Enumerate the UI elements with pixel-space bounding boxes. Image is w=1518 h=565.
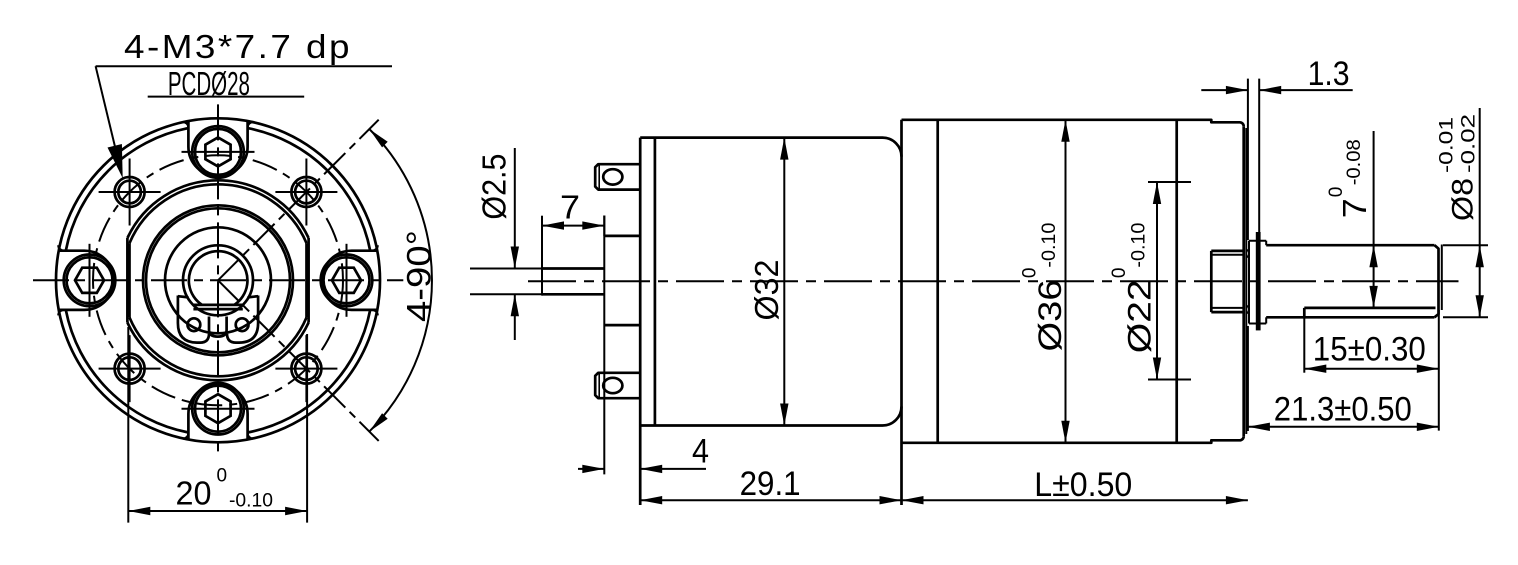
hex screw right cross line: [346, 244, 348, 317]
M3 hole lower-right outer circle: [291, 354, 321, 384]
M3 hole upper-right horizontal crosshair: [275, 191, 337, 193]
hex screw top head inner circle: [195, 129, 241, 175]
motor can bottom edge: [640, 407, 901, 426]
extension line shaft end lower: [1438, 310, 1440, 431]
M3 hole upper-left outer circle: [115, 177, 145, 207]
svg-text:Ø22: Ø22: [1121, 279, 1157, 353]
stub left face / extension line 7: [541, 216, 543, 296]
boss chamfer left flat chord: [128, 243, 131, 317]
bearing boss top edge: [1211, 250, 1243, 253]
arrow dia8 top: [1476, 245, 1484, 267]
gearbox rear plate right edge: [936, 120, 939, 443]
bearing boss bottom edge: [1211, 311, 1243, 314]
hex screw top pocket slot: [188, 121, 247, 176]
svg-text:1.3: 1.3: [1308, 55, 1350, 93]
boss chamfer R96 bottom arc: [130, 318, 307, 377]
dimension line 7: [542, 225, 604, 227]
arrow dia22 top: [1153, 182, 1161, 204]
front view horizontal centerline: [33, 279, 403, 281]
terminal lower outline: [595, 373, 640, 398]
M3 hole lower-left inner circle: [118, 357, 141, 380]
svg-text:0: 0: [1020, 268, 1041, 279]
M3 hole lower-right inner circle: [295, 357, 318, 380]
extension line dia22 bottom: [1148, 379, 1191, 381]
extension line 21.3 left: [1247, 326, 1249, 431]
arrow 20 right: [285, 507, 307, 515]
extension line 1.3 right: [1258, 79, 1260, 232]
retaining ring right lug outline: [227, 296, 258, 343]
retaining ring right lug top edge: [248, 296, 259, 297]
svg-text:Ø2.5: Ø2.5: [476, 154, 513, 220]
pocket rim fillet right-bottom: [372, 310, 378, 316]
svg-text:21.3±0.50: 21.3±0.50: [1274, 391, 1412, 429]
dimension line dia32: [783, 138, 785, 426]
arrow 21.3 right: [1417, 423, 1439, 431]
bearing boss circle R53: [165, 227, 271, 333]
hex screw left hexagon socket: [75, 268, 104, 293]
hex screw right head inner circle: [324, 257, 370, 303]
output shaft circle: [183, 245, 253, 315]
terminal upper hole: [603, 169, 622, 184]
washer fillet arc upper: [1247, 250, 1249, 258]
rear shaft stub top edge: [542, 267, 604, 270]
dimension line dia36: [1065, 120, 1067, 443]
arrow L left: [902, 496, 924, 504]
arrow dia32 top: [780, 138, 788, 160]
arrow flat7 bottom: [1369, 286, 1377, 308]
dimension line dia22: [1156, 182, 1158, 380]
svg-text:Ø36: Ø36: [1032, 280, 1068, 352]
hex screw left cross line: [89, 244, 91, 317]
output shaft end face with chamfers: [1435, 245, 1439, 317]
front view outer circle (gearbox OD 36): [56, 118, 380, 442]
svg-text:Ø8: Ø8: [1447, 178, 1480, 221]
arrow 1.3 left: [1226, 86, 1248, 94]
svg-text:7: 7: [560, 188, 580, 225]
gearbox top edge: [902, 120, 1244, 127]
dimension line 4 left tail: [578, 468, 604, 470]
front view vertical centerline: [217, 104, 219, 454]
M3 hole lower-right vertical crosshair: [305, 335, 307, 402]
arrow dia32 bottom: [780, 404, 788, 426]
arrow dia22 bottom: [1153, 358, 1161, 380]
angle dimension arc 90 deg: [369, 129, 432, 432]
pocket rim fillet right-top: [372, 245, 378, 251]
bearing boss top inner line: [1211, 254, 1243, 256]
M3 hole lower-right horizontal crosshair: [275, 368, 337, 370]
output shaft bottom edge: [1266, 316, 1434, 319]
side view axis centerline: [528, 280, 1459, 282]
leader arrowhead: [108, 144, 123, 178]
extension line 1.3 left: [1247, 79, 1249, 240]
bearing boss left edge: [1210, 251, 1213, 312]
hub ring inner circle R72: [146, 208, 290, 352]
front view inner rim arc SE: [248, 310, 371, 433]
svg-text:-0.10: -0.10: [1039, 223, 1060, 268]
end cap bump bottom edge: [604, 324, 640, 327]
hex screw bottom head inner circle: [195, 386, 241, 432]
arrow dia36 bottom: [1061, 421, 1069, 443]
boss left flat chord: [126, 238, 129, 323]
dimension line 1.3 right tail: [1259, 89, 1353, 91]
svg-text:-0.10: -0.10: [229, 491, 273, 512]
bolt circle PCD 28 dash-dot: [93, 155, 343, 405]
svg-text:4-M3*7.7 dp: 4-M3*7.7 dp: [124, 28, 352, 65]
arrow 15 left: [1304, 365, 1326, 373]
svg-text:20: 20: [176, 475, 212, 512]
shaft flat step: [1303, 308, 1306, 317]
svg-text:15±0.30: 15±0.30: [1313, 331, 1426, 369]
dimension line shaft flat 7: [1373, 131, 1375, 308]
retaining ring inner arc: [189, 251, 248, 305]
extension line dia22 top: [1148, 181, 1191, 183]
svg-text:-0.02: -0.02: [1459, 114, 1480, 173]
pocket rim fillet left-bottom: [58, 310, 64, 316]
svg-text:4: 4: [692, 433, 709, 471]
mounting plate thick section: [1256, 232, 1261, 330]
arc arrowhead top: [369, 129, 387, 147]
gearbox front face second line: [1245, 128, 1247, 434]
motor end cap seam line: [654, 138, 657, 426]
arc arrowhead bottom: [369, 413, 387, 431]
hex screw left head inner circle: [67, 257, 113, 303]
extension line stub top: [470, 268, 541, 270]
front washer top edge: [1249, 240, 1266, 242]
output shaft top edge: [1266, 244, 1434, 247]
extension line dia8 top: [1443, 244, 1488, 246]
svg-text:4-90°: 4-90°: [401, 230, 439, 322]
arrow L right: [1226, 496, 1248, 504]
svg-text:0: 0: [1326, 187, 1347, 198]
extension line right flat: [306, 334, 308, 523]
gearbox rear plate left edge (with extension): [900, 120, 903, 505]
arrow 15 right: [1417, 365, 1439, 373]
extension line 7 right: [603, 216, 605, 236]
svg-text:-0.08: -0.08: [1344, 139, 1365, 185]
hex screw bottom pocket slot: [188, 384, 247, 439]
leader line to M3 hole: [96, 66, 121, 169]
gearbox front face line: [1242, 126, 1245, 436]
svg-text:-0.01: -0.01: [1437, 117, 1458, 173]
45-degree centerline through upper-right M3 hole: [218, 120, 379, 281]
arrow 29.1 left: [640, 496, 662, 504]
hex screw top head outer circle: [192, 126, 244, 178]
front washer bottom edge: [1249, 323, 1266, 325]
terminal upper inner edge: [598, 164, 600, 189]
retaining ring chord line upper: [194, 304, 243, 307]
dimension line dia8: [1479, 108, 1481, 317]
terminal upper outline: [595, 164, 640, 189]
hex screw right pocket slot: [322, 251, 377, 310]
hex screw bottom hexagon socket: [205, 394, 230, 423]
extension line dia8 bottom: [1443, 316, 1488, 318]
retaining ring chord line lower: [193, 308, 242, 311]
motor can top edge: [640, 138, 901, 157]
gearbox bottom edge: [902, 436, 1244, 443]
washer fillet arc lower: [1247, 306, 1249, 314]
end cap face line (with extensions): [603, 216, 605, 475]
hex screw bottom cross line: [182, 408, 255, 410]
motor left face line (with extension): [639, 138, 642, 505]
svg-text:7: 7: [1336, 198, 1373, 218]
pocket rim fillet left-top: [58, 245, 64, 251]
arrow dia36 top: [1061, 120, 1069, 142]
arrow 20 left: [128, 507, 150, 515]
terminal lower hole: [603, 378, 622, 393]
arrow 21.3 left: [1248, 423, 1270, 431]
hex screw left head outer circle: [64, 254, 116, 306]
arrow dia2.5 bottom: [511, 294, 519, 316]
M3 hole upper-left vertical crosshair: [129, 159, 131, 226]
gearbox case joint line: [1175, 120, 1178, 443]
svg-text:0: 0: [217, 466, 228, 487]
extension line 15 left: [1303, 317, 1305, 372]
arrow 4 left: [582, 465, 604, 473]
front view inner rim arc SW: [66, 310, 189, 433]
svg-text:0: 0: [1109, 268, 1130, 279]
M3 hole upper-right outer circle: [291, 177, 321, 207]
dimension line dia2.5 upper: [514, 148, 516, 269]
front washer right face lower: [1265, 317, 1267, 323]
front view inner rim arc NW: [66, 128, 189, 251]
dimension line L: [902, 499, 1248, 501]
arrow 7 right: [582, 221, 604, 229]
leader shelf line top: [96, 65, 392, 67]
dimension line 20: [128, 510, 307, 512]
pocket rim fillet top-right: [248, 122, 254, 128]
hex screw left pocket slot: [59, 251, 114, 310]
arrow flat7 top: [1369, 245, 1377, 267]
M3 hole lower-left outer circle: [115, 354, 145, 384]
rear shaft stub bottom edge: [542, 293, 604, 296]
front washer left face: [1248, 241, 1250, 324]
boss circle R100 bottom arc: [127, 323, 308, 381]
pocket rim fillet bottom-right: [248, 433, 254, 439]
arrow 29.1 right: [880, 496, 902, 504]
hub ring outer circle R75: [143, 205, 293, 355]
svg-text:Ø32: Ø32: [748, 260, 785, 321]
extension line stub bottom: [470, 293, 541, 295]
hex screw right head outer circle: [321, 254, 373, 306]
hex screw top cross line: [182, 151, 255, 153]
dimension line dia2.5 lower: [514, 294, 516, 340]
dimension line 15: [1304, 368, 1439, 370]
M3 hole upper-left inner circle: [118, 181, 141, 204]
dimension line 4 right tail: [640, 468, 706, 470]
extension line left flat: [127, 327, 129, 523]
front washer right face upper: [1265, 241, 1267, 246]
retaining ring left lug outline: [178, 296, 209, 343]
svg-text:-0.10: -0.10: [1129, 223, 1150, 268]
M3 hole upper-right vertical crosshair: [305, 159, 307, 226]
M3 hole upper-left horizontal crosshair: [99, 191, 161, 193]
retaining ring gap notch: [209, 317, 227, 337]
end cap bump top edge: [604, 235, 640, 238]
arrow 4 right: [640, 465, 662, 473]
terminal lower inner edge: [598, 373, 600, 398]
retaining ring right lug hole: [236, 318, 249, 331]
pocket rim fillet bottom-left: [183, 433, 189, 439]
boss circle R100 top arc: [127, 180, 308, 238]
boss chamfer right flat chord: [305, 243, 308, 317]
M3 hole lower-left horizontal crosshair: [99, 368, 161, 370]
dimension line 1.3 left tail: [1201, 89, 1248, 91]
M3 hole lower-left vertical crosshair: [129, 335, 131, 402]
arrow 1.3 right: [1259, 86, 1281, 94]
dimension line 29.1: [640, 499, 901, 501]
shaft flat edge: [1304, 307, 1435, 310]
retaining ring left lug top edge: [178, 296, 189, 297]
arrow dia8 bottom: [1476, 295, 1484, 317]
bearing boss bottom inner line: [1211, 307, 1243, 309]
retaining ring left lug hole: [188, 318, 201, 331]
hex screw right hexagon socket: [332, 268, 361, 293]
M3 hole upper-right inner circle: [295, 181, 318, 204]
front view inner rim arc NE: [248, 128, 371, 251]
arrow 7 left: [542, 221, 564, 229]
hex screw top hexagon socket: [205, 137, 230, 166]
boss right flat chord: [307, 238, 310, 323]
arrow dia2.5 top: [511, 247, 519, 269]
svg-text:29.1: 29.1: [740, 465, 801, 503]
hex screw bottom head outer circle: [192, 383, 244, 435]
leader shelf line bottom: [148, 96, 305, 98]
45-degree centerline through lower-right M3 hole: [218, 280, 379, 441]
svg-text:L±0.50: L±0.50: [1034, 466, 1132, 504]
boss chamfer R96 top arc: [130, 184, 307, 243]
dimension line 21.3: [1248, 426, 1439, 428]
extension line shaft end upper: [1441, 245, 1443, 311]
pocket rim fillet top-left: [183, 122, 189, 128]
